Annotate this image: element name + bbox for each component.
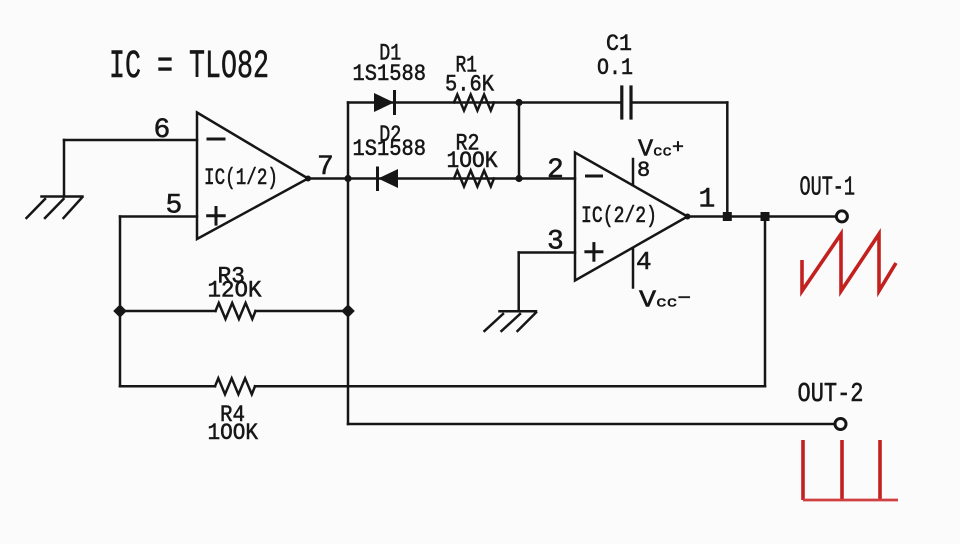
wire pin3 vertical to ground <box>517 253 520 312</box>
wire pin6 horizontal <box>64 139 197 142</box>
wire vertical junctions x519 <box>518 103 521 179</box>
resistor R2 <box>454 171 494 187</box>
resistor R1 <box>454 95 494 111</box>
waveform pulses OUT-2 <box>803 440 898 500</box>
terminal OUT-1 <box>836 211 847 222</box>
node U1 output apex dot <box>305 176 311 182</box>
wire OUT-2 horizontal <box>348 423 835 426</box>
wire top D1 branch horizontal <box>348 101 622 104</box>
svg-text:1OOK: 1OOK <box>208 420 259 447</box>
node A junction at x348 <box>344 175 351 182</box>
wire pin3 horizontal <box>519 251 575 254</box>
diode D1 <box>374 92 395 114</box>
op-amp U2 plus input sign <box>586 244 602 261</box>
op-amp U1 plus input sign <box>208 208 225 225</box>
svg-text:IC = TLO82: IC = TLO82 <box>109 45 269 90</box>
svg-text:O.1: O.1 <box>597 55 633 82</box>
node diamond right R3 <box>341 304 355 318</box>
diode D2 <box>378 168 399 190</box>
wire mid rail vertical x348 <box>347 103 350 425</box>
node U2 output apex dot <box>685 214 691 220</box>
ground G1 <box>27 197 83 219</box>
wire pin5 horizontal <box>120 215 197 218</box>
waveform sawtooth OUT-1 <box>802 234 896 291</box>
wire vertical x765 down to R4 <box>764 217 767 387</box>
svg-text:1: 1 <box>699 185 716 216</box>
resistor R4 <box>120 378 765 394</box>
node square junction feedback <box>723 212 732 221</box>
terminal OUT-2 <box>835 419 846 430</box>
node diamond left R3 <box>113 304 127 318</box>
wire pin6 vertical drop to ground <box>63 140 66 197</box>
capacitor C1 <box>622 87 631 118</box>
svg-text:4: 4 <box>636 247 652 277</box>
pin4 Vcc- stub <box>632 248 635 288</box>
op-amp U2 IC(2/2) <box>575 153 688 281</box>
svg-text:2: 2 <box>547 155 564 186</box>
svg-text:12OK: 12OK <box>208 278 263 305</box>
node square junction R4 tap <box>761 212 770 221</box>
wire U2 output to OUT-1 <box>688 215 837 218</box>
wire output U1 to U2 pin2 (through D2,R2) <box>308 177 575 180</box>
svg-text:OUT-1: OUT-1 <box>800 174 856 204</box>
ground G2 <box>485 311 537 331</box>
svg-text:6: 6 <box>154 115 171 146</box>
resistor R3 <box>120 303 348 319</box>
pin8 Vcc+ stub <box>632 159 635 185</box>
svg-text:1S1588: 1S1588 <box>353 61 427 88</box>
svg-text:IC(2/2): IC(2/2) <box>581 203 657 229</box>
wire C1 right to corner <box>631 101 727 104</box>
svg-text:IC(1/2): IC(1/2) <box>204 165 278 191</box>
node junction R2 bottom x519 <box>515 175 522 182</box>
svg-text:1S1588: 1S1588 <box>353 136 427 163</box>
svg-text:1OOK: 1OOK <box>447 148 499 175</box>
op-amp U1 IC(1/2) <box>197 113 308 240</box>
op-amp U2 minus input sign <box>587 175 602 178</box>
wire left rail vertical <box>119 217 122 387</box>
svg-text:5.6K: 5.6K <box>445 71 495 98</box>
op-amp U1 minus input sign <box>208 138 224 141</box>
svg-text:OUT-2: OUT-2 <box>798 380 864 410</box>
wire feedback vertical x727 <box>726 103 729 218</box>
node junction R1 top x519 <box>515 99 522 106</box>
